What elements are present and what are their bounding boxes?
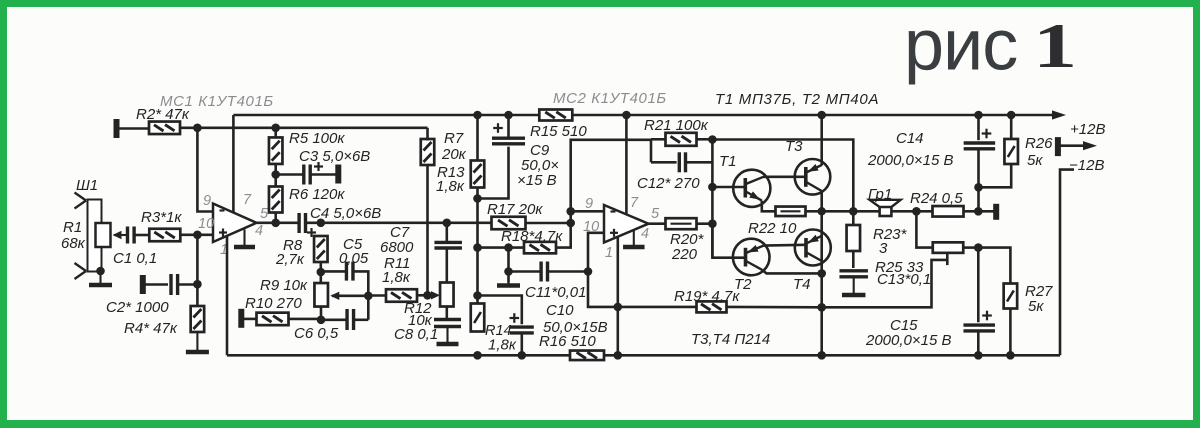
label R27 [1025, 283, 1053, 300]
svg-text:R26: R26 [1025, 135, 1053, 152]
svg-text:10: 10 [198, 216, 214, 232]
node R21 right [708, 135, 717, 144]
ground below MC2 pin4 [623, 230, 645, 247]
svg-text:R24 0,5: R24 0,5 [910, 190, 963, 207]
label R21 [644, 117, 709, 134]
label R17 [487, 201, 543, 218]
resistor R4 [191, 306, 205, 332]
wire C12 left link [651, 161, 677, 164]
ground below C13 [842, 277, 866, 295]
wire R7 bottom long [426, 164, 429, 295]
wire R13 bottom [476, 188, 479, 304]
wire R26 bottom link [979, 164, 1012, 187]
wire R6 bottom stub [274, 213, 277, 223]
pin 7 of MC2 [630, 195, 639, 211]
wire bottom bus left [227, 354, 570, 357]
node R8 top [317, 219, 326, 228]
node pin9 junction [566, 207, 575, 216]
resistor R2 [149, 122, 180, 135]
label C14 [896, 130, 924, 147]
pin 5 of MC1 [260, 206, 269, 222]
node R9 wiper [364, 292, 373, 301]
label C14 value [867, 152, 954, 169]
capacitor C6 [347, 309, 354, 330]
wire C7 top [445, 223, 448, 243]
capacitor C3 [304, 165, 310, 185]
svg-text:R9 10к: R9 10к [260, 277, 308, 294]
wire T2 emitter link [762, 270, 822, 274]
node R8 bottom [317, 268, 326, 277]
pin 9 of MC2 [585, 196, 593, 212]
svg-text:6800: 6800 [380, 239, 414, 256]
svg-text:C3 5,0×6В: C3 5,0×6В [299, 148, 370, 165]
svg-text:50,0×15В: 50,0×15В [543, 319, 608, 336]
wire term to R2 [117, 127, 150, 130]
capacitor C13 [839, 271, 868, 277]
label C6 [294, 325, 339, 342]
pin 5 of MC2 [651, 206, 660, 222]
resistor R10 [257, 313, 289, 326]
wire C14 top [977, 115, 980, 140]
label C2 [106, 299, 169, 316]
node R13 top bus [473, 111, 482, 120]
label C15 value [865, 332, 952, 349]
label R11 value [382, 269, 411, 286]
node R6 bottom [271, 219, 280, 228]
wire term to C2 [143, 283, 168, 286]
plus sign C10 [510, 313, 520, 323]
label C13 [877, 271, 931, 288]
plus sign C3 [314, 162, 323, 171]
label C9 [530, 142, 550, 159]
wire C9 top [507, 115, 510, 138]
wire R2 to R5/R7 line [180, 127, 428, 130]
wire R26 top [1010, 115, 1013, 139]
svg-text:R15 510: R15 510 [530, 123, 587, 140]
svg-text:Т4: Т4 [793, 276, 811, 293]
ground below R4 [186, 332, 209, 352]
svg-text:Т3,Т4 П214: Т3,Т4 П214 [691, 331, 770, 348]
potentiometer R12 [440, 283, 454, 307]
resistor R20 [666, 218, 697, 229]
wire C11 left link [507, 248, 510, 283]
node R5 top [271, 124, 280, 133]
svg-text:5к: 5к [1027, 152, 1043, 169]
svg-text:220: 220 [671, 246, 698, 263]
wire R5 top stub [274, 128, 277, 138]
label C11 [525, 284, 586, 301]
wire feedback up from pin9 [571, 140, 651, 212]
label R4 [124, 320, 178, 337]
node R18 left b [504, 243, 513, 252]
node C11 left [504, 267, 513, 276]
node R26 bus [1007, 111, 1016, 120]
node R2 junction [193, 124, 202, 133]
label R1 value [61, 235, 86, 252]
resistor R18 [524, 242, 556, 254]
resistor R14 [471, 304, 485, 332]
svg-text:−12В: −12В [1069, 157, 1104, 174]
wire output vertical T3-T4 [820, 191, 823, 356]
svg-text:рис: рис [904, 6, 1017, 86]
label C1 [113, 250, 157, 267]
pin 10 of MC1 [198, 216, 214, 232]
label R16 [539, 333, 596, 350]
node C7 tap [443, 219, 452, 228]
wire R25 left link [916, 211, 933, 247]
label T3 [785, 138, 803, 155]
svg-text:МС1 К1УТ401Б: МС1 К1УТ401Б [160, 93, 274, 110]
svg-text:R3*1к: R3*1к [141, 209, 182, 226]
label R3 [141, 209, 182, 226]
label R24 [910, 190, 963, 207]
label R12 [404, 300, 432, 317]
label T1 T2 types [715, 91, 879, 108]
svg-text:5к: 5к [1028, 298, 1044, 315]
resistor R8 [314, 236, 328, 262]
label R25 [875, 259, 924, 276]
node R20 output [708, 219, 717, 228]
label R22 [748, 220, 797, 237]
wire R18 to node [556, 211, 571, 247]
svg-text:С13*0,1: С13*0,1 [877, 271, 931, 288]
label C5 value [339, 250, 369, 267]
svg-text:R19* 4,7к: R19* 4,7к [674, 288, 740, 305]
label R15 [530, 123, 587, 140]
node pin7 bus [622, 111, 631, 120]
node C3 tap [271, 170, 280, 179]
wire C9 bottom link [478, 147, 509, 199]
svg-text:C11*0,01: C11*0,01 [525, 284, 586, 301]
node R17 right [566, 219, 575, 228]
wire R21 left [651, 138, 666, 141]
wire pin10 link [588, 233, 618, 307]
wire node to C5 [321, 270, 347, 273]
wire C3 to terminal [310, 173, 336, 176]
label C5 [343, 236, 363, 253]
node C15 bus [974, 351, 983, 360]
wire R3 to opamp pin10 [180, 234, 213, 237]
wire R19 right [727, 306, 822, 309]
wire bottom bus right [604, 354, 1060, 357]
wire feedback down to pin9 [197, 128, 213, 212]
wire C14 bottom [977, 149, 980, 212]
wire R27 top link [978, 248, 1010, 284]
wire R10 to node [289, 318, 322, 321]
R1 wiper arrow [113, 231, 127, 239]
wire to C3 [276, 173, 303, 176]
svg-text:R4* 47к: R4* 47к [124, 320, 178, 337]
label C7 value [380, 239, 414, 256]
node R7 bottom junction [423, 291, 432, 300]
node R25 right [974, 243, 983, 252]
svg-text:R18*4,7к: R18*4,7к [501, 228, 563, 245]
arrowhead +12V rail [1052, 110, 1066, 119]
wire T3 top to bus [820, 115, 823, 166]
resistor R19 [697, 301, 727, 312]
pin 9 of MC1 [203, 193, 211, 209]
wire R23 to C13 [852, 251, 855, 268]
ground below C8 [437, 327, 459, 345]
wire R20 right [697, 222, 713, 225]
resistor R26 [1004, 139, 1018, 164]
svg-text:7: 7 [630, 195, 639, 211]
label R10 [245, 295, 302, 312]
svg-text:4: 4 [255, 223, 263, 239]
plus sign C14 [982, 129, 992, 139]
wire R25 right [963, 246, 978, 249]
wire T1 base [712, 186, 745, 189]
capacitor C11 [541, 262, 547, 282]
node output [818, 207, 826, 215]
node C9 top bus [504, 111, 513, 120]
label R18 [501, 228, 563, 245]
label C10 [546, 302, 574, 319]
svg-text:1,8к: 1,8к [488, 337, 517, 354]
wire T2 base [712, 224, 745, 258]
node C2 junction [193, 280, 202, 289]
svg-text:9: 9 [203, 193, 211, 209]
node C10 bus [518, 351, 527, 360]
resistor R17 [492, 217, 526, 230]
label R14 [485, 323, 512, 339]
label R26 [1025, 135, 1053, 152]
svg-text:R22 10: R22 10 [748, 220, 797, 237]
wire C15 bottom [977, 331, 980, 355]
svg-text:R7: R7 [444, 130, 464, 147]
op-amp U2 MC2 [604, 205, 649, 243]
resistor R7 [421, 139, 435, 165]
label R20 value [671, 246, 698, 263]
node C11 right [584, 267, 593, 276]
pin 10 of MC2 [583, 219, 599, 235]
resistor R25 [933, 242, 964, 253]
connector Sh1 upper pin arrow [75, 193, 87, 209]
label R8 value [275, 251, 305, 268]
resistor R22 [776, 207, 806, 217]
wire C4 to R17 [306, 222, 492, 225]
wire R17 to pin9 node [526, 222, 571, 225]
terminal R2 input [114, 119, 120, 138]
label R11 [384, 255, 410, 272]
svg-text:МС2 К1УТ401Б: МС2 К1УТ401Б [553, 90, 667, 107]
wire C2 to node [178, 283, 198, 286]
node input junction [193, 231, 202, 240]
wire R5 to R6 [274, 164, 277, 187]
pin 4 of MC1 [255, 223, 263, 239]
ground below MC1 pin4 [234, 230, 255, 248]
label MC1 type [160, 93, 274, 110]
label R19 [674, 288, 740, 305]
svg-text:9: 9 [585, 196, 593, 212]
svg-text:Т1 МП37Б, Т2 МП40А: Т1 МП37Б, Т2 МП40А [715, 91, 879, 108]
potentiometer R9 [314, 283, 328, 307]
plus sign C9 [493, 123, 503, 133]
wire MC1 output [257, 222, 299, 225]
wire C11 to pin10 node [548, 270, 589, 273]
ground below C11 node [497, 272, 520, 286]
svg-text:1,8к: 1,8к [436, 178, 465, 195]
loudspeaker Gr1 [870, 200, 901, 216]
svg-text:1: 1 [1033, 10, 1077, 81]
wire C15 top [977, 248, 980, 323]
label R13 value [436, 178, 465, 195]
capacitor C12 [679, 152, 685, 172]
wire output to speaker [822, 210, 880, 213]
label C7 [390, 224, 410, 241]
svg-text:C8 0,1: C8 0,1 [394, 326, 438, 343]
resistor R21 [666, 133, 697, 146]
wire C12 right link [686, 161, 713, 164]
wire R27 bottom [1009, 309, 1012, 356]
terminal -12V [1055, 137, 1061, 156]
resistor R6 [269, 187, 283, 213]
wire R18 left link [478, 246, 525, 249]
wire input down to C2 node [196, 235, 199, 305]
wire T2 collector to T4 base [764, 244, 807, 247]
wire pin7 to top bus [232, 115, 235, 213]
capacitor C1 [128, 227, 135, 244]
capacitor C2 [171, 274, 178, 295]
capacitor C8 [434, 320, 461, 327]
wire term to R10 [241, 318, 257, 321]
pin 4 of MC2 [641, 226, 649, 242]
R25 tap stub [946, 253, 949, 265]
node R19 output join [817, 303, 826, 312]
svg-text:5: 5 [651, 206, 660, 222]
label MC2 type [553, 90, 667, 107]
wire C12 left stub [650, 140, 653, 163]
capacitor C15 [963, 325, 995, 331]
node R9 bottom [317, 316, 326, 325]
wire output node vertical [711, 139, 714, 257]
svg-text:1,8к: 1,8к [382, 269, 411, 286]
label R14 value [488, 337, 517, 354]
svg-text:×15 В: ×15 В [517, 172, 557, 189]
terminal R10 left [238, 309, 244, 328]
op-amp U1 MC1 [213, 204, 257, 243]
svg-text:C10: C10 [546, 302, 574, 319]
label +12V [1070, 121, 1105, 138]
node pin1 R19 crossing [614, 303, 623, 312]
wire MC2 pin7 to bus [625, 115, 628, 215]
wire R11 to R12 arrow [417, 291, 440, 299]
wire R23 top [852, 211, 855, 225]
wire R9 wiper arrow [330, 292, 368, 300]
node R18 left a [473, 243, 482, 252]
node T3 bus [817, 111, 826, 120]
label R5 [289, 130, 345, 147]
node R27 bus [1006, 351, 1015, 360]
wire R13 top [476, 115, 479, 161]
svg-text:2000,0×15 В: 2000,0×15 В [867, 152, 954, 169]
wire R22 right [806, 210, 822, 213]
wire T1 collector to T3 base [764, 176, 806, 179]
label C15 [890, 317, 918, 334]
label Gr1 [868, 186, 892, 203]
label R7 value [441, 146, 467, 163]
resistor R13 [471, 161, 485, 188]
potentiometer R1 [96, 223, 111, 247]
transistor T4 [795, 230, 831, 266]
label C4 [310, 205, 381, 222]
wire C10 top link [478, 296, 522, 325]
resistor R11 [386, 289, 417, 302]
wire T1 emitter to R22 [762, 201, 776, 212]
label R12 value [408, 312, 433, 329]
node output bus [817, 351, 826, 360]
wire -12V arrow [1061, 141, 1098, 150]
connector Sh1 body [88, 200, 102, 272]
svg-text:0,05: 0,05 [339, 250, 369, 267]
node R14 bus [473, 351, 482, 360]
node T2-T4 join [817, 269, 826, 278]
label C9 value1 [521, 157, 559, 174]
capacitor C7 [434, 242, 462, 248]
pin 1 of MC1 [220, 242, 228, 258]
label R2 [136, 106, 190, 123]
wire -12V rail [1060, 170, 1074, 356]
terminal C3 right [335, 165, 341, 184]
svg-text:R21 100к: R21 100к [644, 117, 709, 134]
resistor R15 [539, 110, 572, 121]
node pin1 bus [614, 351, 623, 360]
wire C6 left link [321, 318, 347, 321]
wire pin1 down to bottom bus [226, 236, 229, 355]
wire R12 top to C7 [445, 250, 448, 283]
wire R19 to R25 tap [822, 260, 948, 307]
node R13 bottom [473, 194, 482, 203]
resistor R23 [847, 225, 861, 251]
label R6 [289, 186, 345, 203]
wire R21 node to speaker node [712, 140, 853, 212]
label R23 [873, 226, 908, 243]
capacitor C4 [299, 213, 305, 233]
label T3 T4 type [691, 331, 770, 348]
wire R24 right [964, 210, 994, 213]
label R13 [437, 164, 465, 181]
wire top bus right of R15 [572, 114, 1056, 117]
node R14 top [473, 291, 482, 300]
wire C6 right link [354, 318, 369, 321]
svg-text:С14: С14 [896, 130, 924, 147]
wire speaker to R24 [891, 210, 933, 213]
svg-text:R1: R1 [63, 219, 82, 236]
svg-text:+12В: +12В [1070, 121, 1105, 138]
svg-text:C2* 1000: C2* 1000 [106, 299, 169, 316]
svg-text:Т1: Т1 [719, 153, 737, 170]
wire MC2 pin1 down [616, 236, 619, 355]
label R7 [444, 130, 464, 147]
wire C1 to R3 [134, 234, 149, 237]
node R25 tap [912, 207, 921, 216]
svg-text:Ш1: Ш1 [76, 177, 98, 194]
label R20 [670, 231, 705, 248]
label T1 [719, 153, 737, 170]
node C14 bus [974, 111, 983, 120]
label R23 value [879, 240, 888, 257]
caption 1 [1033, 10, 1077, 81]
label C8 [394, 326, 438, 343]
svg-text:Гр1: Гр1 [868, 186, 892, 203]
resistor R24 [933, 206, 964, 217]
node R1 bottom [96, 267, 105, 276]
svg-text:R5 100к: R5 100к [289, 130, 345, 147]
resistor R16 [570, 351, 604, 361]
caption ris [904, 6, 1017, 86]
node C14-R26 join [974, 183, 983, 192]
wire R12 bottom to C8 [445, 307, 448, 320]
